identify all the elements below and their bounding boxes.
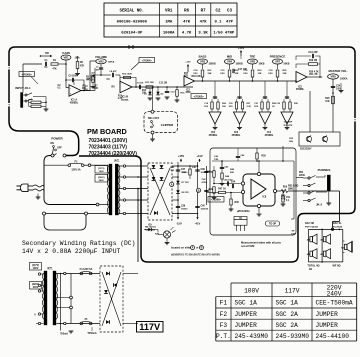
svg-text:-41V: -41V	[195, 222, 201, 226]
svg-text:47Ω: 47Ω	[281, 198, 286, 201]
svg-text:TRE: TRE	[250, 55, 256, 59]
speaker SP1	[307, 234, 317, 244]
master vol wire down	[332, 79, 334, 132]
resistor R10 R11	[118, 96, 123, 101]
input jack JK-1	[21, 91, 24, 108]
diode D14	[106, 320, 109, 324]
resistor R48	[229, 192, 240, 212]
phones label	[318, 168, 331, 172]
svg-text:C45 1/50: C45 1/50	[224, 179, 234, 182]
svg-text:or: or	[196, 247, 198, 250]
fuse F1	[44, 160, 104, 172]
svg-text:47K: 47K	[52, 68, 57, 71]
power amp section box	[210, 148, 296, 235]
primary tap label box 2	[30, 282, 42, 290]
svg-text:3.3K: 3.3K	[198, 32, 208, 36]
opamp IC1-A plus minus	[70, 87, 72, 96]
svg-text:F4 125V 5A: F4 125V 5A	[80, 268, 93, 271]
output zigzag R50	[281, 187, 288, 193]
svg-text:μPC1230H: μPC1230H	[237, 210, 250, 213]
svg-text:4Ω: 4Ω	[309, 268, 312, 271]
svg-text:+15V: +15V	[238, 46, 244, 50]
svg-text:A: A	[171, 183, 173, 187]
svg-text:D8 15V: D8 15V	[182, 192, 190, 194]
svg-text:<70366>: <70366>	[211, 198, 222, 202]
svg-text:10K: 10K	[258, 73, 262, 75]
svg-text:set at FGM: set at FGM	[241, 244, 254, 248]
svg-text:2SC2235Y: 2SC2235Y	[300, 148, 312, 151]
svg-text:47K: 47K	[80, 65, 85, 68]
diode D2	[156, 86, 165, 100]
svg-text:C24: C24	[336, 85, 341, 88]
IC5 to bias wire	[309, 91, 311, 132]
svg-text:R34 47K: R34 47K	[284, 124, 293, 127]
IC3 label	[232, 130, 241, 137]
diode D9	[144, 225, 163, 235]
voltage selector loop	[44, 215, 86, 230]
opamp IC1-A bias	[73, 80, 75, 85]
svg-text:※EMNIRYO-TE BNASHITE IMAUFO-NA: ※EMNIRYO-TE BNASHITE IMAUFO-NARIM.	[171, 253, 221, 257]
rectifier 2 cross	[102, 272, 121, 326]
secondary bus	[56, 272, 100, 330]
speaker SP2	[320, 234, 330, 244]
svg-text:4558DL: 4558DL	[209, 134, 218, 137]
svg-text:4Ω: 4Ω	[320, 239, 323, 242]
svg-text:VR1: VR1	[63, 56, 69, 60]
svg-text:020104-UP: 020104-UP	[121, 32, 143, 36]
svg-text:(117V): (117V)	[98, 168, 105, 170]
svg-text:(3W): (3W)	[288, 189, 293, 191]
phones resistor R51	[296, 172, 305, 178]
capacitor C38	[195, 169, 209, 174]
clipper ground	[150, 134, 155, 141]
svg-text:CEE-T500mA: CEE-T500mA	[316, 300, 353, 307]
op-amp IC8 power amplifier	[241, 172, 276, 207]
capacitor C5	[68, 75, 78, 83]
diode D12	[113, 283, 116, 287]
svg-text:F3: F3	[220, 322, 228, 329]
svg-text:<70360>: <70360>	[22, 72, 33, 76]
bias transistor label	[300, 148, 312, 151]
op-amp IC1-A	[69, 85, 81, 105]
svg-text:VR5: VR5	[250, 60, 256, 64]
svg-text:PM BOARD: PM BOARD	[87, 127, 127, 136]
capacitor C13	[296, 51, 320, 64]
svg-text:10K: 10K	[142, 93, 147, 95]
svg-text:R53: R53	[281, 195, 286, 198]
svg-text:100V: 100V	[244, 288, 259, 295]
diode D4	[160, 165, 164, 168]
resistor R1	[51, 60, 67, 71]
svg-text:39K: 39K	[208, 73, 212, 75]
primary tap box 220V	[95, 175, 108, 183]
wire VR1 to IC1-A	[66, 64, 69, 88]
gyrator op-amp IC3-A	[234, 81, 246, 130]
svg-text:0.1: 0.1	[214, 21, 222, 25]
primary tap box 117V	[95, 166, 108, 174]
svg-text:R51: R51	[299, 172, 304, 174]
resistor R16	[175, 86, 186, 102]
measurement note	[241, 241, 281, 249]
capacitor C8	[101, 70, 120, 84]
svg-text:100V: 100V	[33, 267, 39, 270]
transformer P.T. 2 label	[47, 267, 52, 271]
capacitor C40	[195, 205, 209, 211]
svg-text:R19 1M: R19 1M	[309, 60, 317, 62]
IC1-B output wire	[132, 86, 193, 88]
IC5 output wire	[307, 76, 322, 78]
svg-text:56K: 56K	[230, 172, 234, 174]
svg-text:4558: 4558	[185, 91, 191, 94]
gyrator op-amp IC2-B	[209, 81, 221, 130]
svg-text:10K: 10K	[94, 88, 99, 90]
svg-text:1MA: 1MA	[165, 21, 173, 25]
amp extra parts	[220, 160, 230, 186]
speaker wiring rails	[309, 229, 353, 263]
svg-text:C5 100P: C5 100P	[68, 75, 78, 78]
resistor under VR7	[276, 70, 279, 82]
svg-text:125V 5A: 125V 5A	[71, 169, 81, 172]
svg-text:C51: C51	[286, 197, 291, 199]
svg-text:JUMPER: JUMPER	[235, 322, 258, 329]
presence network labels	[268, 70, 287, 75]
svg-text:3.3K: 3.3K	[247, 106, 252, 108]
resistor R4	[29, 105, 47, 107]
resistor R53	[288, 185, 298, 191]
IC8 top pin wire	[258, 160, 260, 172]
power switch S1	[50, 137, 66, 158]
bass network labels	[193, 69, 212, 75]
capacitor C24	[331, 85, 341, 91]
capacitor C7	[95, 67, 103, 76]
svg-text:4558DL: 4558DL	[296, 88, 305, 91]
svg-text:R41 150Ω: R41 150Ω	[145, 229, 155, 232]
svg-text:10K: 10K	[325, 101, 330, 103]
svg-text:100KA: 100KA	[163, 32, 175, 36]
svg-text:VR7: VR7	[275, 60, 281, 64]
svg-text:JK-2: JK-2	[316, 203, 323, 207]
svg-text:T250mA: T250mA	[87, 332, 97, 335]
resistor R47	[207, 188, 244, 194]
rectifier 2 output wires	[123, 274, 138, 324]
resistor R19	[296, 60, 320, 77]
fuse F4	[80, 268, 93, 275]
svg-text:SERIAL NO.: SERIAL NO.	[120, 9, 145, 13]
svg-text:C11 1M: C11 1M	[159, 83, 167, 85]
svg-text:POWER: POWER	[51, 137, 63, 141]
speaker connector label 2	[333, 222, 343, 229]
svg-text:VR8: VR8	[330, 75, 336, 79]
svg-text:VR1: VR1	[165, 9, 173, 13]
wire mains tap y213	[43, 212, 88, 215]
svg-text:Secondary Winding Ratings (DC): Secondary Winding Ratings (DC)	[22, 240, 135, 247]
svg-text:IC5: IC5	[298, 86, 302, 89]
AC plug P1	[17, 184, 45, 192]
resistor R7 R8 labels	[94, 86, 99, 91]
gyrator op-amp IC4-B	[281, 81, 293, 130]
wire switch to AC line	[44, 156, 96, 205]
svg-text:50KB: 50KB	[284, 64, 290, 66]
svg-text:R13 10K: R13 10K	[145, 82, 154, 84]
svg-text:<70364>: <70364>	[142, 58, 153, 62]
resistor under VR5	[251, 70, 254, 82]
gyrator labels 3	[254, 103, 277, 108]
svg-text:22K: 22K	[283, 73, 287, 75]
input jack label	[15, 86, 31, 90]
svg-text:P.T.: P.T.	[47, 267, 52, 271]
gain pot VR1	[61, 51, 80, 64]
zener D8	[176, 190, 189, 194]
IC1-A to volume wire	[81, 61, 96, 91]
svg-text:4558DL: 4558DL	[265, 134, 274, 137]
input wire up	[23, 64, 42, 91]
svg-text:000100-020000: 000100-020000	[117, 21, 148, 25]
border chain gaps	[8, 66, 356, 121]
capacitor C37	[176, 169, 188, 174]
phones jack contacts	[303, 176, 316, 202]
clipper wire from signal	[152, 86, 154, 110]
svg-text:8Ω: 8Ω	[341, 247, 344, 249]
svg-text:TO-3P: TO-3P	[269, 223, 276, 226]
svg-text:SGC 2A: SGC 2A	[276, 311, 299, 318]
svg-text:(220V): (220V)	[98, 177, 105, 179]
svg-text:SGC 1A: SGC 1A	[235, 300, 258, 307]
pilot ground	[165, 238, 170, 245]
svg-text:240V: 240V	[99, 179, 105, 182]
capacitor C39	[176, 206, 188, 211]
svg-text:JUMPER: JUMPER	[316, 311, 339, 318]
svg-text:DAC SL: DAC SL	[333, 222, 342, 225]
clamp labels	[142, 89, 147, 95]
bias feed wire	[212, 146, 294, 219]
svg-text:B: B	[201, 247, 203, 250]
PM board part numbers	[89, 138, 138, 157]
board ref box 70360	[19, 72, 38, 85]
117V label box	[137, 322, 164, 333]
resistor R43	[182, 165, 191, 179]
svg-text:WF 8Ω: WF 8Ω	[333, 265, 341, 268]
svg-text:100V: 100V	[99, 171, 105, 173]
svg-text:P.T.: P.T.	[114, 159, 119, 163]
svg-text:1K: 1K	[208, 189, 211, 191]
svg-text:-15V: -15V	[176, 222, 182, 226]
svg-text:C2: C2	[216, 9, 221, 13]
svg-text:+15V: +15V	[178, 154, 185, 158]
svg-text:47NP: 47NP	[225, 32, 235, 36]
phones jack label JK-2	[316, 203, 323, 207]
svg-text:FS-20624: FS-20624	[333, 226, 343, 229]
feedback resistor R49	[281, 191, 291, 206]
board edge connector marks	[129, 45, 133, 49]
svg-text:P.T.: P.T.	[216, 333, 231, 340]
master vol pot VR8	[328, 69, 348, 81]
transformer P.T.2 core and windings	[42, 271, 57, 325]
gyrator labels 4	[276, 103, 298, 105]
speaker output drop	[331, 191, 339, 230]
amp input labels	[214, 155, 235, 174]
svg-text:56K: 56K	[289, 141, 293, 143]
svg-text:DR: DR	[45, 52, 49, 55]
pilot lamp PL1	[163, 227, 175, 238]
tre pot VR5	[248, 55, 265, 70]
svg-text:70234401 (100V): 70234401 (100V)	[89, 138, 128, 144]
svg-text:CLIPPER: CLIPPER	[161, 123, 174, 127]
node A circled	[170, 182, 174, 186]
svg-text:10K: 10K	[235, 73, 239, 75]
IC2 label	[209, 130, 218, 137]
svg-text:245-44100: 245-44100	[316, 333, 350, 340]
svg-text:245-439M0: 245-439M0	[235, 333, 269, 340]
gyrator op-amp IC3-B	[259, 81, 271, 130]
resistor R13	[145, 82, 154, 88]
svg-text:+41V: +41V	[196, 154, 203, 158]
wire AC neutral	[43, 190, 45, 214]
resistor R54	[281, 195, 286, 201]
svg-text:+15V: +15V	[185, 62, 191, 64]
svg-text:R18 10K: R18 10K	[191, 76, 200, 78]
phones ground	[326, 191, 331, 205]
note box	[266, 221, 280, 226]
rail extra labels	[170, 166, 208, 184]
svg-text:R20 4.7K: R20 4.7K	[309, 71, 319, 74]
phones jack sleeve	[327, 175, 330, 191]
svg-text:SGC 2A: SGC 2A	[276, 322, 299, 329]
serial number table	[104, 3, 237, 37]
svg-text:C38: C38	[201, 169, 206, 171]
direction arrow	[40, 52, 53, 57]
svg-text:47P: 47P	[226, 21, 234, 25]
mid pot VR4	[225, 55, 243, 70]
Japanese note	[171, 253, 221, 257]
-15V rail label	[176, 215, 182, 226]
input jack contacts	[23, 93, 32, 102]
svg-text:R7: R7	[201, 9, 206, 13]
diode D13	[104, 290, 108, 293]
fuse F5	[80, 318, 97, 335]
svg-text:47/50: 47/50	[202, 181, 208, 184]
resistor R7 label	[84, 86, 89, 91]
resistor R26	[325, 96, 334, 104]
+15V rail label	[178, 154, 185, 162]
svg-text:PHONES: PHONES	[318, 168, 331, 172]
svg-text:C37: C37	[181, 169, 186, 171]
tre network labels	[243, 70, 262, 75]
svg-text:R26: R26	[325, 98, 330, 100]
primary pins	[34, 273, 43, 325]
svg-text:MASTER VOL.: MASTER VOL.	[328, 69, 347, 73]
svg-text:4Ω: 4Ω	[307, 253, 310, 256]
zener D7	[176, 181, 189, 184]
speaker impedance labels	[307, 265, 340, 271]
master vol ground stub	[338, 78, 343, 93]
transformer P.T. core and windings	[107, 164, 120, 215]
svg-text:SW-1 OFF: SW-1 OFF	[148, 117, 160, 120]
transformer primary stubs	[104, 165, 109, 213]
transformer secondary wires	[119, 165, 148, 215]
presence coupling labels	[284, 121, 294, 144]
svg-text:750mA: 750mA	[60, 333, 68, 336]
feedback labels	[86, 77, 95, 82]
capacitor C6 C7 labels	[107, 79, 116, 89]
diode D3	[152, 165, 156, 168]
svg-text:TOTAL 4Ω: TOTAL 4Ω	[307, 265, 319, 268]
svg-text:F2: F2	[220, 311, 228, 318]
SP label	[291, 231, 295, 236]
PM board title	[87, 127, 127, 136]
feedback loop IC1-B	[120, 74, 137, 88]
svg-text:<70365>: <70365>	[194, 94, 205, 98]
board ref box 70365	[191, 94, 207, 99]
svg-text:MID: MID	[227, 55, 232, 59]
svg-text:C26 47P: C26 47P	[284, 121, 293, 124]
amp input coupling	[207, 166, 241, 200]
diode D6b	[154, 211, 157, 215]
svg-text:1M: 1M	[95, 69, 98, 71]
resistor R42	[145, 226, 160, 236]
svg-text:R48: R48	[235, 201, 240, 204]
svg-text:SGC 1A: SGC 1A	[276, 300, 299, 307]
clipper box	[144, 110, 178, 134]
svg-text:1000/50: 1000/50	[201, 208, 209, 210]
gyrator labels 1	[204, 102, 227, 108]
IC8 label	[237, 210, 250, 213]
capacitor C1	[44, 60, 48, 69]
svg-text:BASS: BASS	[199, 55, 207, 59]
svg-text:VR4: VR4	[227, 60, 233, 64]
tone bus wire	[195, 80, 297, 82]
resistor under VR4	[228, 70, 231, 82]
capacitor C9	[137, 83, 144, 90]
capacitor C10	[165, 86, 176, 99]
svg-text:10P: 10P	[291, 234, 295, 236]
primary tap label box 1	[30, 263, 42, 271]
output labels	[309, 71, 319, 77]
svg-text:C3: C3	[227, 9, 232, 13]
speaker connector label 1	[305, 222, 318, 229]
svg-text:4Ω: 4Ω	[307, 239, 310, 242]
board ref box 70364	[131, 58, 155, 71]
speaker SP5 woofer	[341, 241, 352, 253]
capacitor C11 label	[159, 83, 167, 85]
resistor R2	[29, 101, 47, 103]
capacitor C17	[233, 69, 248, 73]
svg-text:FS/TY QB 4Ω: FS/TY QB 4Ω	[305, 226, 318, 229]
svg-text:C13 10P: C13 10P	[308, 51, 318, 54]
svg-text:240V: 240V	[33, 286, 39, 289]
svg-text:100KA: 100KA	[108, 60, 115, 63]
svg-text:10KB: 10KB	[259, 64, 265, 66]
amp bypass caps	[220, 148, 245, 169]
wire bus to IC5	[295, 80, 297, 82]
resistor R9	[87, 75, 101, 89]
secondary center ground	[60, 331, 73, 336]
rectifier 2 dashed box	[100, 266, 123, 332]
capacitor C2 C3 labels	[57, 85, 61, 90]
+41V rail label	[196, 154, 203, 162]
ground chassis near plug	[36, 194, 41, 200]
svg-text:ON: ON	[50, 142, 54, 145]
diode D6	[160, 177, 164, 180]
svg-text:Measurement taken with all pot: Measurement taken with all pots	[241, 241, 281, 245]
rail wires	[172, 162, 207, 215]
svg-text:245-939M0: 245-939M0	[276, 333, 310, 340]
secondary winding text	[22, 240, 135, 255]
svg-text:SB 100mA: SB 100mA	[145, 226, 156, 229]
svg-text:C9 1M: C9 1M	[137, 83, 144, 85]
wire selector to transformer	[88, 203, 104, 213]
svg-text:JUMPER: JUMPER	[235, 311, 258, 318]
svg-text:47K: 47K	[184, 75, 189, 78]
